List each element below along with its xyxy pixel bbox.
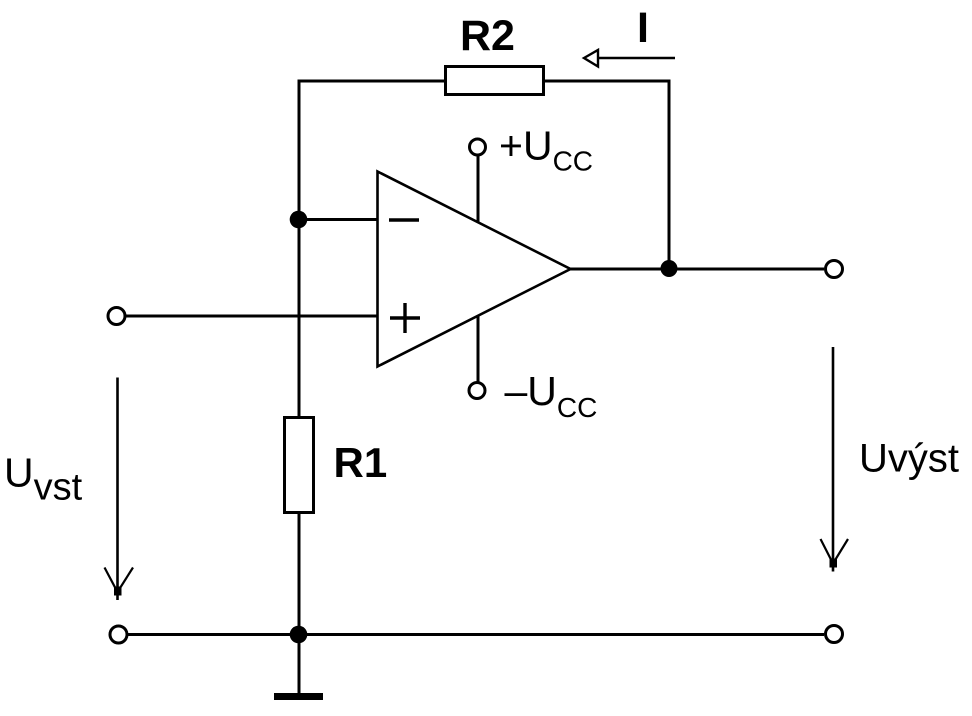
node +Ucc terminal [470,139,486,155]
arrow input voltage Uvst [105,378,134,601]
wire ground stub [298,635,301,695]
wire output [570,268,824,271]
node bottom-right terminal [826,626,843,643]
wire positive supply [477,156,480,224]
resistor R1 [285,418,314,513]
wire R1 to ground rail [298,513,301,636]
junction output node [661,260,678,277]
svg-text:R1: R1 [334,439,388,486]
wire negative supply [477,314,480,382]
wire top feedback right segment [544,80,671,83]
wire inverting input [299,218,378,221]
node input terminal [108,308,125,325]
wire right feedback vertical [668,80,671,270]
wire bottom rail [128,633,824,636]
op-amp non-inverting pin plus sign [390,303,420,333]
op-amp inverting pin minus sign [389,218,419,221]
node bottom-left terminal [110,626,127,643]
node -Ucc terminal [469,383,485,399]
arrow output voltage Uvyst [821,347,849,572]
svg-text:I: I [637,4,649,52]
op-amp U1 [378,172,571,367]
junction ground rail node [290,626,308,644]
node output terminal [826,261,843,278]
wire top feedback left segment [298,80,446,83]
arrow current I [584,50,675,67]
svg-text:Uvýst: Uvýst [859,437,959,481]
junction inverting input node [290,211,308,229]
wire left vertical branch [298,80,301,418]
resistor R2 [446,67,544,95]
wire input [126,315,378,318]
svg-text:R2: R2 [460,12,515,60]
ground [274,693,323,700]
